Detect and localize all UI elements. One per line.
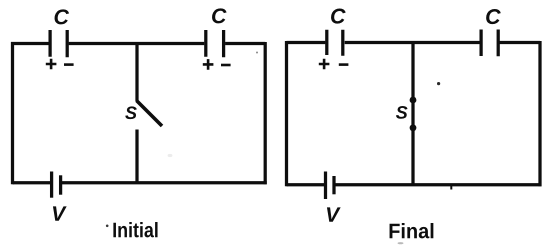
- wire: left circuit middle branch lower: [135, 130, 138, 185]
- capacitor C3 polarity minus: [339, 63, 349, 66]
- battery V1 long plate: [50, 172, 53, 198]
- capacitor C1 polarity minus: [64, 63, 74, 66]
- capacitor C1 plates: [50, 30, 67, 57]
- wire: right circuit bottom, left corner to battery: [287, 183, 325, 186]
- wire: right circuit top side, left segment to C3: [287, 41, 326, 44]
- wire: left circuit bottom, battery to right corner: [62, 181, 267, 184]
- caption Final: [390, 223, 434, 238]
- capacitor C4 value label C: [486, 9, 501, 24]
- battery V2 long plate: [324, 172, 327, 200]
- capacitor C2 plates: [206, 30, 224, 57]
- capacitor C2 polarity plus: [203, 59, 214, 70]
- switch S2 label S: [396, 106, 408, 119]
- scan speckle near right circuit: [437, 82, 440, 85]
- battery V1 label V: [53, 206, 67, 220]
- capacitor C3 plates: [327, 30, 343, 56]
- capacitor C2 value label C: [212, 8, 227, 23]
- switch S1 label S: [125, 106, 137, 119]
- capacitor C3 value label C: [331, 9, 346, 24]
- capacitor C3 polarity plus: [319, 59, 330, 70]
- scan artifact tick on bottom wire: [450, 186, 452, 190]
- capacitor C1 value label C: [55, 9, 70, 24]
- battery V1 short plate: [59, 175, 62, 194]
- wire: left circuit bottom, left corner to battery: [13, 181, 51, 184]
- switch S2 contact dot lower: [410, 124, 417, 131]
- battery V2 short plate: [332, 176, 335, 194]
- scan smudge inside left circuit: [168, 154, 173, 157]
- scan smudge below Final: [398, 242, 404, 244]
- wire: left circuit right side: [264, 42, 267, 184]
- wire: left circuit top side, C2 to right corner: [225, 42, 265, 45]
- wire: left circuit left side: [11, 42, 14, 184]
- wire: left circuit middle branch upper: [135, 42, 138, 101]
- battery V2 label V: [327, 207, 341, 221]
- switch S1 blade open: [137, 101, 163, 127]
- scan speckle inside left circuit near corner: [256, 52, 258, 54]
- wire: right circuit left side: [285, 41, 288, 186]
- wire: right circuit top side, C4 to right corner: [499, 41, 540, 44]
- wire: right circuit bottom, battery to right corner: [336, 183, 542, 186]
- wire: right circuit middle branch, closed switch S2: [411, 41, 414, 186]
- capacitor C4 plates: [481, 30, 498, 57]
- capacitor C1 polarity plus: [46, 59, 57, 70]
- switch S2 contact dot upper: [410, 97, 417, 104]
- scan speckle before Initial: [106, 225, 109, 228]
- capacitor C2 polarity minus: [221, 64, 231, 67]
- wire: right circuit right side: [538, 41, 541, 186]
- caption Initial: [113, 222, 157, 237]
- wire: right circuit top side, between C3 and C4: [345, 41, 480, 44]
- wire: left circuit top side, between C1 and C2: [69, 42, 205, 45]
- wire: left circuit top side, left segment to C1: [11, 42, 49, 45]
